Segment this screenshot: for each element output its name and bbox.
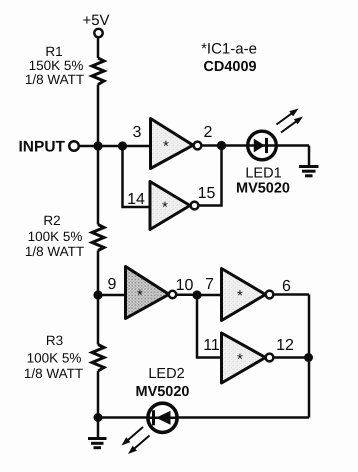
- svg-text:100K 5%: 100K 5%: [28, 229, 83, 244]
- inverter U1a: [151, 119, 194, 169]
- wire U1d output to right rail: [274, 293, 310, 296]
- node output junction: [217, 141, 226, 150]
- svg-text:150K 5%: 150K 5%: [29, 58, 84, 73]
- ground right: [299, 167, 319, 176]
- svg-text:1/8 WATT: 1/8 WATT: [24, 366, 83, 381]
- wire bubble2 to node: [202, 144, 222, 147]
- wire U1b output up: [199, 146, 222, 206]
- wire U1c out to node: [176, 294, 197, 297]
- INPUT terminal: [69, 141, 79, 151]
- svg-text:+5V: +5V: [82, 12, 109, 29]
- svg-text:*: *: [162, 199, 168, 216]
- svg-text:*: *: [237, 288, 243, 305]
- wire R1 to R2: [97, 85, 100, 225]
- svg-text:INPUT: INPUT: [19, 139, 66, 156]
- svg-text:2: 2: [204, 124, 213, 141]
- inverter U1c output bubble: [169, 291, 176, 298]
- svg-text:11: 11: [203, 337, 220, 354]
- svg-text:R3: R3: [46, 333, 63, 348]
- node 12 junction: [304, 353, 313, 362]
- wire node10 down to U1e: [197, 295, 222, 358]
- R1 value label: [25, 44, 84, 87]
- svg-text:14: 14: [127, 191, 145, 208]
- inverter U1e output bubble: [266, 354, 274, 362]
- LED LED2: [148, 403, 177, 432]
- svg-text:10: 10: [176, 277, 194, 294]
- svg-text:100K 5%: 100K 5%: [27, 351, 82, 366]
- svg-text:1/8 WATT: 1/8 WATT: [25, 244, 84, 259]
- resistor R2: [92, 225, 104, 251]
- wire to left ground: [97, 418, 100, 438]
- svg-text:7: 7: [205, 276, 214, 293]
- svg-text:*IC1-a-e: *IC1-a-e: [201, 41, 257, 58]
- LED2 light arrows: [122, 427, 150, 454]
- inverter U1d: [222, 269, 266, 321]
- node 10 junction: [192, 290, 201, 299]
- wire to LED1: [222, 144, 310, 147]
- svg-text:LED2: LED2: [148, 366, 184, 382]
- svg-text:1/8 WATT: 1/8 WATT: [25, 72, 84, 87]
- svg-text:LED1: LED1: [245, 166, 281, 182]
- wire node10 to U1d: [197, 294, 222, 297]
- svg-text:*: *: [163, 138, 169, 155]
- node input branch junction: [118, 141, 127, 150]
- node bottom-left junction: [94, 413, 103, 422]
- svg-text:MV5020: MV5020: [236, 181, 290, 197]
- R2 value label: [25, 213, 84, 259]
- svg-text:*: *: [237, 351, 243, 368]
- resistor R3: [92, 345, 104, 372]
- svg-text:MV5020: MV5020: [135, 384, 189, 400]
- wire +5V to R1: [97, 37, 100, 58]
- LED1 name label: [236, 166, 290, 197]
- wire row2 to U1c: [98, 294, 126, 297]
- wire U1e output to right rail: [274, 356, 309, 359]
- R3 value label: [24, 333, 83, 381]
- wire input row: [79, 145, 151, 148]
- wire R2 to R3: [97, 251, 100, 345]
- LED LED1: [248, 131, 277, 160]
- +5V terminal: [94, 29, 102, 37]
- node input-rail junction: [93, 141, 102, 150]
- svg-text:6: 6: [282, 278, 291, 295]
- inverter U1d output bubble: [266, 291, 274, 299]
- wire R3 to bottom: [97, 371, 100, 418]
- resistor R1: [92, 58, 104, 85]
- inverter U1b output bubble: [191, 202, 199, 210]
- svg-text:CD4009: CD4009: [203, 59, 256, 75]
- inverter U1e: [222, 333, 266, 383]
- wire down to right ground: [308, 146, 311, 167]
- IC1 label: [201, 41, 257, 76]
- svg-text:9: 9: [108, 276, 117, 293]
- svg-text:R2: R2: [43, 213, 60, 228]
- wire right rail down: [308, 295, 311, 418]
- ground left: [88, 439, 107, 448]
- inverter U1b: [150, 182, 190, 230]
- inverter U1a output bubble: [194, 142, 202, 150]
- LED2 name label: [135, 366, 189, 400]
- LED1 light arrows: [277, 109, 304, 133]
- svg-text:*: *: [137, 287, 143, 304]
- wire bottom rail: [98, 416, 309, 419]
- svg-text:3: 3: [133, 124, 142, 141]
- wire branch down to U1b: [123, 146, 151, 207]
- svg-text:R1: R1: [45, 44, 62, 59]
- svg-text:15: 15: [198, 185, 216, 202]
- node row2 junction: [93, 290, 102, 299]
- svg-text:12: 12: [276, 337, 294, 354]
- inverter U1c: [126, 267, 170, 319]
